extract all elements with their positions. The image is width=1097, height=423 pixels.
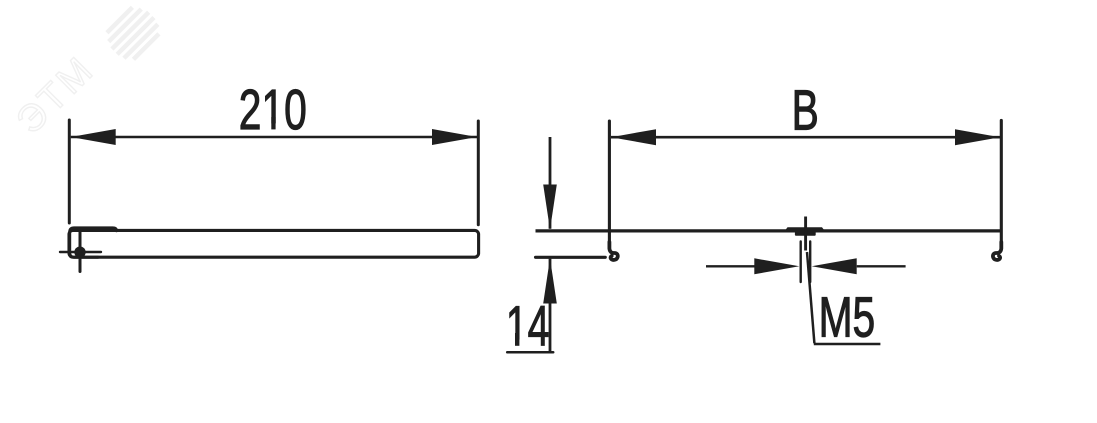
M5 thread boss block below profile line (795, 232, 816, 236)
digit 1 foot correction white patch (210) (263, 123, 284, 130)
M5 hole left extension line (800, 242, 802, 283)
dimension B dimension line (611, 136, 1000, 139)
svg-text:14: 14 (506, 295, 549, 358)
M5 right arrowhead pointing left (812, 258, 857, 274)
dimension 210 dimension line (71, 136, 477, 139)
dimension B left arrowhead (611, 129, 656, 145)
M5 dimension line left segment (706, 265, 755, 267)
M5 hole centerline (804, 217, 807, 251)
profile top line (right view, also 14 upper extension) (536, 229, 1002, 232)
screw center dot (74, 247, 85, 258)
dimension 14 label shelf line (507, 351, 553, 354)
M5 dimension line right segment (857, 265, 906, 267)
svg-text:M5: M5 (819, 286, 876, 349)
dimension 14 upper dimension line (549, 137, 552, 229)
screw head outline at left end of plate (70, 228, 117, 257)
watermark ЭТМ text and logo (9, 0, 165, 148)
dimension B right extension line / profile right edge (1000, 120, 1003, 246)
dimension 14 lower dimension line (549, 259, 552, 353)
dimension 210 right arrowhead (432, 129, 477, 145)
M5 thread boss plateau above profile line (784, 227, 827, 232)
M5 left arrowhead pointing right (754, 258, 799, 274)
digit 1 stem restore (210) (271, 117, 275, 129)
dimension 210 left extension line (68, 120, 71, 223)
dimension 210 left arrowhead (71, 129, 116, 145)
M5 hole right extension line (809, 242, 811, 283)
M5 leader line (807, 252, 814, 343)
M5 label shelf line (814, 343, 881, 346)
digit 1 stem restore (14) (515, 333, 519, 346)
dimension B left extension line / profile left edge (608, 121, 611, 247)
plate outline (left view bar) (69, 230, 479, 257)
screw center mark horizontal line (60, 251, 101, 253)
dimension 210 right extension line (477, 121, 480, 225)
svg-text:210: 210 (239, 79, 307, 142)
profile right edge curl (993, 242, 1001, 260)
svg-text:ЭТМ: ЭТМ (9, 48, 103, 142)
screw center mark vertical line (79, 229, 82, 272)
profile left edge curl (609, 242, 617, 260)
svg-text:B: B (792, 79, 819, 142)
dimension 14 up arrowhead (543, 258, 557, 303)
dimension 14 lower extension line (536, 256, 606, 259)
dimension 14 down arrowhead (543, 185, 557, 230)
dimension B right arrowhead (955, 129, 1000, 145)
digit 1 foot correction white patch (14) (508, 340, 527, 347)
